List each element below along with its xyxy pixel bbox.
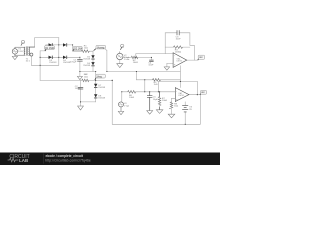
- svg-text:10nF: 10nF: [176, 39, 182, 41]
- svg-text:out: out: [201, 91, 205, 94]
- svg-text:100nF: 100nF: [75, 88, 82, 90]
- svg-text:LM741: LM741: [178, 95, 184, 97]
- svg-text:10kΩ: 10kΩ: [129, 97, 135, 99]
- svg-text:120V: 120V: [18, 51, 24, 53]
- svg-text:LM741: LM741: [177, 61, 183, 63]
- svg-text:1N4148: 1N4148: [49, 62, 57, 64]
- svg-text:10kΩ: 10kΩ: [162, 100, 168, 102]
- svg-text:10kΩ: 10kΩ: [133, 62, 139, 64]
- svg-text:ebode / complete_circuit: ebode / complete_circuit: [46, 154, 84, 158]
- svg-text:1kΩ: 1kΩ: [174, 106, 178, 108]
- svg-text:1kΩ: 1kΩ: [84, 76, 88, 78]
- svg-text:10nF: 10nF: [148, 65, 154, 67]
- svg-text:Vreg: Vreg: [97, 75, 102, 78]
- svg-text:LAB: LAB: [19, 158, 28, 163]
- svg-text:470µF: 470µF: [70, 62, 77, 64]
- svg-text:D2 1N4: D2 1N4: [74, 49, 83, 51]
- svg-text:http://circuitlab.com/c/7fq46e: http://circuitlab.com/c/7fq46e: [45, 158, 91, 162]
- svg-text:1N4148: 1N4148: [83, 65, 90, 67]
- svg-text:1N4148: 1N4148: [98, 87, 105, 89]
- svg-text:1 Vpk: 1 Vpk: [124, 105, 129, 107]
- svg-text:1N4148: 1N4148: [98, 98, 105, 100]
- svg-text:10µF: 10µF: [153, 99, 159, 101]
- svg-text:100kΩ: 100kΩ: [175, 52, 182, 54]
- svg-text:D1 1N41: D1 1N41: [45, 48, 55, 50]
- svg-text:Vunreg: Vunreg: [97, 46, 105, 49]
- svg-text:out: out: [199, 56, 203, 59]
- svg-text:1kΩ: 1kΩ: [84, 48, 88, 50]
- svg-text:1 kHz: 1 kHz: [124, 59, 130, 61]
- svg-text:1kΩ: 1kΩ: [154, 84, 158, 86]
- svg-text:1N4148: 1N4148: [83, 58, 90, 60]
